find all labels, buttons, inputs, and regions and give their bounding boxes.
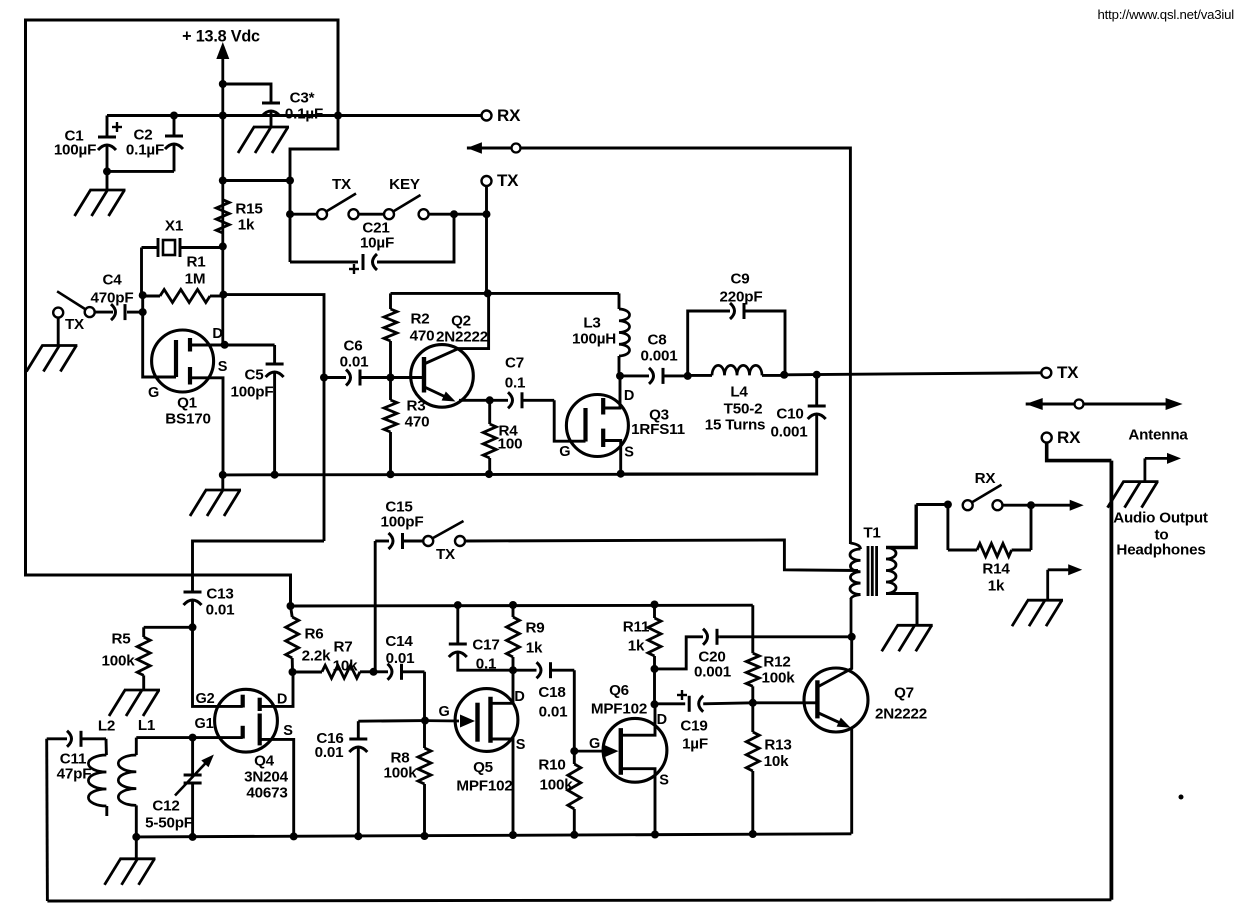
- resistor R4: [483, 400, 522, 474]
- arrow headphone lower: [1048, 564, 1083, 600]
- svg-text:R10: R10: [538, 756, 565, 773]
- capacitor C8: [620, 331, 688, 384]
- svg-text:C4: C4: [102, 271, 122, 288]
- svg-text:TX: TX: [65, 316, 84, 333]
- svg-text:Q6: Q6: [609, 682, 629, 699]
- wire RX terminal loop: [1047, 443, 1112, 461]
- switch TX input: [53, 291, 94, 333]
- resistor R2: [384, 293, 434, 377]
- node Q6 gate junction: [570, 747, 578, 755]
- node C5 bottom junction: [271, 471, 279, 479]
- svg-text:C5: C5: [244, 366, 264, 383]
- node Q2 emitter junction: [486, 396, 494, 404]
- svg-text:R11: R11: [623, 618, 650, 635]
- svg-text:+ 13.8 Vdc: + 13.8 Vdc: [182, 28, 260, 46]
- wire osc to C13 corner: [193, 541, 325, 592]
- wire G2 riser: [193, 627, 243, 706]
- capacitor C5: [231, 345, 284, 475]
- svg-text:R12: R12: [763, 653, 790, 670]
- wire L4 to TX terminal: [784, 373, 1041, 375]
- node collector rail junction: [484, 289, 492, 297]
- node R3 ground junction: [387, 470, 395, 478]
- svg-text:0.001: 0.001: [640, 347, 678, 364]
- svg-text:http://www.qsl.net/va3iul: http://www.qsl.net/va3iul: [1098, 7, 1235, 22]
- svg-text:Audio Output: Audio Output: [1113, 509, 1208, 526]
- node R15 top junction: [219, 177, 227, 185]
- wire audio bottom rail: [136, 834, 851, 837]
- wire Q1 ground stem: [221, 475, 224, 490]
- node R12 bottom junction: [749, 699, 757, 707]
- svg-text:Q7: Q7: [894, 684, 914, 701]
- transistor Q5: [425, 670, 526, 835]
- wire RX junction down: [290, 116, 338, 263]
- resistor R9: [507, 605, 545, 670]
- node C16 ground junction: [354, 832, 362, 840]
- svg-text:1k: 1k: [526, 639, 543, 656]
- node C9 left junction: [684, 372, 692, 380]
- svg-text:L3: L3: [583, 314, 600, 331]
- wire C7 to Q3 gate: [554, 400, 585, 441]
- node C13 bottom junction: [189, 623, 197, 631]
- wire T1 to RX switch: [916, 503, 948, 506]
- terminal TX oscillator: [482, 171, 520, 190]
- svg-text:0.001: 0.001: [770, 423, 808, 440]
- switch KEY: [384, 176, 429, 219]
- node C4 junction: [139, 308, 147, 316]
- transistor Q3: [559, 376, 685, 474]
- resistor R12: [746, 653, 795, 703]
- svg-text:100pF: 100pF: [231, 383, 274, 400]
- label audio output: [1113, 509, 1208, 558]
- wire TX input switch ground stem: [57, 318, 60, 346]
- arrow headphone upper: [1145, 453, 1181, 482]
- svg-text:1k: 1k: [628, 637, 645, 654]
- node C6 feed junction: [320, 374, 328, 382]
- capacitor C21: [290, 214, 454, 274]
- wire G1 line: [136, 736, 242, 739]
- ground below C1: [75, 190, 126, 216]
- node Q5 source ground junction: [509, 831, 517, 839]
- resistor R8: [384, 748, 432, 836]
- svg-text:X1: X1: [165, 217, 184, 234]
- svg-text:470: 470: [410, 327, 435, 344]
- wire ground bus: [223, 473, 817, 477]
- svg-text:100: 100: [498, 435, 523, 452]
- svg-text:100pF: 100pF: [381, 513, 424, 530]
- node R1 left junction: [139, 291, 147, 299]
- svg-text:10µF: 10µF: [360, 234, 394, 251]
- svg-text:C7: C7: [505, 354, 524, 371]
- svg-text:Headphones: Headphones: [1116, 541, 1205, 558]
- svg-text:C13: C13: [206, 585, 233, 602]
- svg-text:D: D: [624, 388, 634, 404]
- svg-text:100k: 100k: [540, 776, 574, 793]
- node G1 junction: [189, 734, 197, 742]
- svg-text:1k: 1k: [238, 216, 255, 233]
- svg-text:1µF: 1µF: [682, 735, 708, 752]
- inductor L4: [688, 365, 785, 433]
- wire TX switch to T1 tap: [465, 540, 858, 571]
- svg-text:Q2: Q2: [451, 312, 471, 329]
- node Q6 drain junction: [651, 700, 659, 708]
- capacitor C10: [621, 375, 826, 474]
- wire C18 riser: [573, 670, 576, 764]
- svg-text:15 Turns: 15 Turns: [705, 416, 766, 433]
- svg-text:0.1µF: 0.1µF: [126, 141, 164, 158]
- svg-text:3N204: 3N204: [244, 768, 289, 785]
- capacitor C2: [126, 116, 183, 172]
- node R10 ground junction: [570, 831, 578, 839]
- svg-text:0.1: 0.1: [505, 374, 526, 391]
- transistor Q4 dual-gate mosfet: [195, 672, 294, 836]
- resistor R1: [143, 253, 224, 302]
- svg-text:Q5: Q5: [473, 759, 494, 776]
- transformer T1: [850, 505, 917, 637]
- svg-text:R14: R14: [982, 560, 1010, 577]
- capacitor C20: [655, 629, 852, 681]
- svg-text:L2: L2: [98, 717, 115, 734]
- node R6 top junction: [287, 602, 295, 610]
- capacitor C14: [374, 633, 425, 680]
- transistor Q2: [391, 293, 490, 407]
- node Q4 source ground junction: [290, 832, 298, 840]
- svg-text:T50-2: T50-2: [724, 400, 763, 417]
- resistor R6: [286, 606, 331, 672]
- svg-text:2.2k: 2.2k: [302, 647, 332, 664]
- node supply RX junction: [219, 112, 227, 120]
- inductor L3: [572, 293, 630, 376]
- arrow RX antenna line: [467, 142, 512, 154]
- wire rail to R12: [751, 605, 754, 653]
- wire TX terminal down: [485, 186, 488, 293]
- wire C14 to Q5 gate node: [423, 672, 426, 748]
- svg-text:G: G: [438, 704, 449, 720]
- capacitor C9: [688, 270, 785, 376]
- svg-text:C19: C19: [680, 717, 707, 734]
- svg-text:5-50pF: 5-50pF: [145, 814, 193, 831]
- svg-text:TX: TX: [436, 546, 455, 563]
- wire TX input to C4: [95, 311, 113, 314]
- inductor L2: [88, 717, 115, 816]
- transistor Q6: [574, 682, 669, 835]
- node R1 right junction: [219, 291, 227, 299]
- ground below R5: [109, 690, 160, 716]
- node C21 right junction: [450, 210, 458, 218]
- capacitor C7: [490, 354, 555, 408]
- svg-text:G: G: [559, 444, 570, 460]
- svg-text:L4: L4: [730, 383, 748, 400]
- resistor R11: [623, 605, 661, 669]
- svg-text:D: D: [277, 692, 287, 708]
- svg-text:C9: C9: [730, 270, 749, 287]
- svg-text:C14: C14: [385, 633, 413, 650]
- wire C15 left riser: [374, 541, 377, 672]
- wire TX-KEY link: [359, 213, 385, 216]
- capacitor C12 variable: [145, 738, 214, 837]
- svg-text:47pF: 47pF: [57, 765, 92, 782]
- wire C1 to ground: [106, 171, 109, 190]
- node Q1 source ground junction: [219, 471, 227, 479]
- node C2 top junction: [170, 112, 178, 120]
- svg-text:S: S: [659, 773, 669, 789]
- svg-text:C17: C17: [472, 636, 499, 653]
- svg-text:D: D: [657, 712, 667, 728]
- wire bottom return: [47, 900, 1111, 901]
- svg-text:100µH: 100µH: [572, 330, 616, 347]
- wire C3 branch: [223, 84, 271, 103]
- resistor R10: [538, 756, 580, 835]
- svg-text:RX: RX: [1057, 428, 1081, 447]
- node border RX junction: [334, 112, 342, 120]
- label site url: [1098, 7, 1235, 22]
- svg-text:0.01: 0.01: [386, 650, 416, 667]
- svg-text:0.01: 0.01: [315, 744, 345, 761]
- wire X1 left to gate node: [140, 248, 143, 296]
- resistor R7: [293, 638, 374, 678]
- svg-text:C8: C8: [647, 331, 666, 348]
- ground below Q1: [190, 490, 241, 516]
- svg-text:R9: R9: [525, 619, 544, 636]
- node X1 junction: [219, 242, 227, 250]
- node Q2 base junction: [387, 374, 395, 382]
- wire L1 ground stem: [135, 837, 138, 859]
- node R8 ground junction: [421, 832, 429, 840]
- wire left antenna riser: [45, 739, 49, 901]
- svg-text:G2: G2: [196, 691, 215, 707]
- transistor Q1: [148, 326, 228, 475]
- svg-text:R2: R2: [410, 310, 429, 327]
- node C12 bottom junction: [189, 833, 197, 841]
- svg-text:RX: RX: [497, 106, 521, 125]
- svg-text:R15: R15: [235, 200, 263, 217]
- svg-text:100k: 100k: [384, 764, 418, 781]
- wire TX switch row: [290, 213, 317, 216]
- svg-text:0.01: 0.01: [206, 601, 236, 618]
- svg-text:C6: C6: [343, 337, 362, 354]
- svg-text:1k: 1k: [988, 577, 1005, 594]
- resistor R13: [746, 703, 791, 834]
- svg-text:470: 470: [405, 413, 430, 430]
- node R4 ground junction: [485, 470, 493, 478]
- svg-text:MPF102: MPF102: [456, 777, 512, 794]
- svg-text:C12: C12: [152, 797, 179, 814]
- svg-text:Q4: Q4: [254, 752, 275, 769]
- svg-text:100k: 100k: [102, 652, 136, 669]
- svg-text:S: S: [624, 445, 634, 461]
- svg-text:S: S: [218, 359, 228, 375]
- wire R11 to Q6 drain: [653, 669, 656, 704]
- node TX switch feed junction: [286, 177, 294, 185]
- svg-text:L1: L1: [138, 717, 156, 734]
- capacitor C17: [449, 605, 513, 672]
- node TX row left junction: [286, 210, 294, 218]
- svg-text:0.001: 0.001: [694, 663, 732, 680]
- node supply junction: [219, 80, 227, 88]
- wire KEY to TX node: [429, 213, 487, 216]
- svg-text:1M: 1M: [185, 270, 206, 287]
- wire oscillator output right: [223, 295, 324, 541]
- node R7 right junction: [370, 668, 378, 676]
- capacitor C13: [184, 585, 236, 627]
- svg-text:0.1: 0.1: [476, 655, 497, 672]
- svg-text:C18: C18: [538, 684, 565, 701]
- svg-text:C10: C10: [776, 405, 803, 422]
- svg-text:100k: 100k: [762, 669, 796, 686]
- svg-text:G: G: [148, 385, 159, 401]
- resistor R5: [102, 627, 193, 690]
- svg-text:R6: R6: [304, 625, 323, 642]
- arrow antenna double: [1026, 398, 1189, 443]
- node Q5 gate junction: [421, 717, 429, 725]
- capacitor C15: [375, 498, 423, 549]
- wire RX switch to audio out: [1003, 504, 1032, 507]
- resistor R3: [384, 378, 429, 475]
- switch TX: [317, 176, 359, 219]
- node R9 top junction: [509, 601, 517, 609]
- wire right vertical: [1110, 461, 1114, 900]
- power +13.8 Vdc arrow: [182, 28, 260, 59]
- capacitor C3: [262, 89, 323, 122]
- wire branch to TX switch: [223, 179, 290, 182]
- capacitor C11: [47, 731, 106, 783]
- ground headphone lower: [1012, 600, 1063, 626]
- svg-text:2N2222: 2N2222: [436, 328, 488, 345]
- node Q3 source ground junction: [617, 470, 625, 478]
- resistor R15: [216, 200, 263, 234]
- ground headphone upper: [1108, 482, 1159, 508]
- speck artifact: [1179, 795, 1184, 800]
- svg-text:10k: 10k: [764, 753, 789, 770]
- ground below TX input switch: [26, 346, 77, 372]
- node R11 bottom junction: [651, 665, 659, 673]
- terminal RX: [482, 106, 522, 125]
- transistor Q7: [753, 637, 927, 834]
- node L1 bottom junction: [132, 833, 140, 841]
- capacitor C4: [91, 271, 143, 320]
- wire RX line to T1: [521, 148, 851, 544]
- svg-text:G: G: [589, 736, 600, 752]
- svg-text:R13: R13: [764, 736, 791, 753]
- node R9 bottom junction: [509, 666, 517, 674]
- svg-text:MPF102: MPF102: [591, 700, 647, 717]
- crystal X1: [142, 217, 223, 257]
- wire C3 to ground: [270, 112, 273, 127]
- wire outer loop top border: [26, 20, 339, 606]
- switch TX C15: [423, 521, 465, 563]
- wire audio top rail: [291, 604, 753, 608]
- svg-text:40673: 40673: [246, 784, 287, 801]
- terminal RX audio: [1042, 428, 1081, 447]
- svg-text:220pF: 220pF: [720, 288, 763, 305]
- node Q7 collector junction: [848, 633, 856, 641]
- svg-text:0.01: 0.01: [539, 703, 569, 720]
- capacitor C6: [324, 337, 391, 385]
- node C10 top junction: [813, 371, 821, 379]
- svg-text:470pF: 470pF: [91, 289, 134, 306]
- svg-text:G1: G1: [195, 716, 214, 732]
- node R13 ground junction: [749, 830, 757, 838]
- ground below T1: [882, 625, 933, 651]
- inductor L1: [118, 717, 156, 837]
- svg-text:2N2222: 2N2222: [875, 705, 927, 722]
- svg-text:TX: TX: [332, 176, 351, 193]
- node audio out junction: [1027, 501, 1035, 509]
- svg-text:TX: TX: [497, 171, 519, 190]
- terminal TX antenna: [1041, 363, 1079, 382]
- svg-text:1RFS11: 1RFS11: [631, 421, 685, 438]
- node RX switch left junction: [944, 501, 952, 509]
- svg-text:0.01: 0.01: [340, 353, 370, 370]
- svg-text:T1: T1: [863, 524, 881, 541]
- node R6 bottom junction: [289, 668, 297, 676]
- svg-text:RX: RX: [975, 470, 996, 487]
- svg-text:R5: R5: [111, 630, 131, 647]
- capacitor C16: [315, 721, 425, 837]
- svg-text:100µF: 100µF: [54, 141, 96, 158]
- ground below C3: [238, 127, 289, 153]
- svg-text:BS170: BS170: [165, 410, 210, 427]
- svg-text:0.1µF: 0.1µF: [285, 105, 323, 122]
- arrow audio output: [1031, 500, 1084, 511]
- wire Q2 collector rail: [391, 292, 620, 295]
- node L4 right junction: [780, 371, 788, 379]
- svg-text:S: S: [283, 723, 293, 739]
- svg-text:S: S: [516, 737, 526, 753]
- svg-text:D: D: [514, 689, 524, 705]
- wire +13.8V supply rail vertical: [221, 57, 224, 345]
- svg-text:D: D: [212, 326, 222, 342]
- capacitor C19: [655, 690, 753, 752]
- node Q6 source ground junction: [651, 831, 659, 839]
- svg-text:TX: TX: [1057, 363, 1079, 382]
- svg-text:KEY: KEY: [389, 176, 420, 193]
- svg-text:Antenna: Antenna: [1128, 426, 1188, 443]
- wire RX line: [107, 114, 482, 117]
- node R11 top junction: [651, 601, 659, 609]
- capacitor C1: [54, 116, 122, 172]
- node C1 ground junction: [103, 167, 111, 175]
- node C17 top junction: [454, 601, 462, 609]
- svg-text:C3*: C3*: [290, 89, 315, 106]
- connector circle RX line: [512, 144, 521, 153]
- svg-text:R7: R7: [333, 638, 352, 655]
- ground below L1: [105, 859, 156, 885]
- wire C1 C2 bottom: [107, 170, 174, 173]
- resistor R14: [948, 505, 1031, 595]
- node Q1 drain junction: [221, 341, 229, 349]
- node Q3 drain junction: [616, 372, 624, 380]
- switch RX: [963, 470, 1003, 510]
- wire gate riser Q1: [143, 295, 176, 377]
- capacitor C18: [513, 662, 574, 720]
- svg-text:Q1: Q1: [177, 394, 198, 411]
- svg-text:R1: R1: [186, 253, 206, 270]
- wire drain to C5: [225, 344, 275, 347]
- node TX terminal junction: [483, 210, 491, 218]
- svg-text:10k: 10k: [333, 657, 358, 674]
